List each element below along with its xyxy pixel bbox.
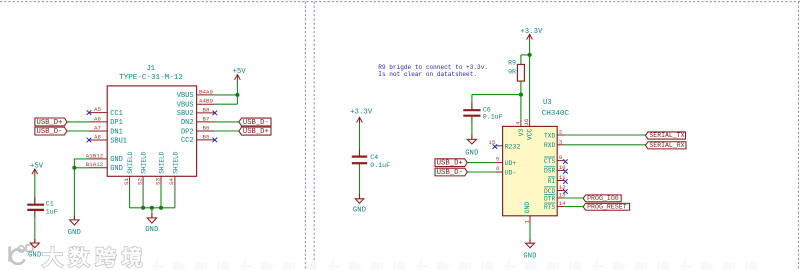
svg-text:USB_D+: USB_D+ xyxy=(37,119,63,127)
svg-text:4: 4 xyxy=(514,121,521,125)
svg-text:A8: A8 xyxy=(94,133,101,140)
svg-text:SERIAL_TX: SERIAL_TX xyxy=(649,132,684,139)
svg-text:GND: GND xyxy=(68,229,81,237)
svg-text:0R: 0R xyxy=(508,69,516,76)
svg-text:S4: S4 xyxy=(168,178,175,185)
svg-text:A4B9: A4B9 xyxy=(199,98,213,105)
svg-text:大数跨境: 大数跨境 xyxy=(42,246,148,270)
svg-text:PROG_RESET: PROG_RESET xyxy=(587,203,627,210)
svg-text:SHIELD: SHIELD xyxy=(158,151,165,174)
svg-text:GND: GND xyxy=(524,202,531,214)
svg-text:PROG_IO0: PROG_IO0 xyxy=(587,195,619,202)
svg-text:SHIELD: SHIELD xyxy=(127,151,134,174)
svg-text:+5V: +5V xyxy=(233,68,247,76)
svg-text:+5V: +5V xyxy=(30,163,44,171)
svg-text:0.1uF: 0.1uF xyxy=(370,162,390,169)
svg-text:SHIELD: SHIELD xyxy=(172,151,179,174)
svg-text:A1B12: A1B12 xyxy=(86,152,104,159)
svg-text:RTS: RTS xyxy=(544,204,555,211)
svg-text:大数跨境大数跨境大数跨境大数跨境大数跨境大数跨境大数跨境: 大数跨境大数跨境大数跨境大数跨境大数跨境大数跨境大数跨境 xyxy=(150,261,766,270)
svg-text:2: 2 xyxy=(559,129,563,136)
svg-text:V3: V3 xyxy=(518,128,525,136)
svg-text:B1A12: B1A12 xyxy=(86,161,104,168)
svg-text:9: 9 xyxy=(559,154,563,161)
svg-text:B5: B5 xyxy=(203,133,210,140)
svg-text:GND: GND xyxy=(353,207,366,215)
svg-text:USB_D+: USB_D+ xyxy=(243,128,269,136)
svg-text:GND: GND xyxy=(110,165,123,173)
svg-text:11: 11 xyxy=(559,174,566,181)
svg-text:CTS: CTS xyxy=(544,158,555,165)
svg-text:USB_D-: USB_D- xyxy=(243,119,269,127)
svg-text:DP2: DP2 xyxy=(181,128,194,136)
svg-text:TXD: TXD xyxy=(544,132,555,139)
svg-text:SBU2: SBU2 xyxy=(177,110,194,118)
svg-text:SHIELD: SHIELD xyxy=(141,151,148,174)
svg-text:1uF: 1uF xyxy=(46,208,58,215)
svg-text:S1: S1 xyxy=(123,178,130,185)
svg-text:DSR: DSR xyxy=(544,168,555,175)
svg-text:GND: GND xyxy=(145,226,158,234)
svg-text:DP1: DP1 xyxy=(110,119,123,127)
svg-text:B4A9: B4A9 xyxy=(199,88,213,95)
svg-text:GND: GND xyxy=(465,150,478,158)
svg-text:16: 16 xyxy=(523,118,530,125)
svg-text:3: 3 xyxy=(559,138,563,145)
svg-text:GND: GND xyxy=(110,156,123,164)
svg-text:12: 12 xyxy=(559,184,566,191)
svg-text:DCD: DCD xyxy=(544,188,555,195)
svg-text:DN1: DN1 xyxy=(110,128,123,136)
svg-text:CC2: CC2 xyxy=(181,137,194,145)
svg-text:SERIAL_RX: SERIAL_RX xyxy=(649,142,684,149)
svg-text:TYPE-C-31-M-12: TYPE-C-31-M-12 xyxy=(119,74,183,82)
svg-text:C4: C4 xyxy=(370,154,378,161)
svg-text:CC1: CC1 xyxy=(110,110,123,118)
svg-text:R9: R9 xyxy=(508,60,516,67)
svg-text:DTR: DTR xyxy=(544,195,555,202)
svg-text:B8: B8 xyxy=(203,106,210,113)
svg-text:UD-: UD- xyxy=(505,170,517,177)
svg-text:15: 15 xyxy=(489,139,496,146)
svg-text:GND: GND xyxy=(523,252,536,260)
svg-text:C6: C6 xyxy=(483,106,491,113)
svg-text:B6: B6 xyxy=(203,124,210,131)
svg-text:1: 1 xyxy=(523,220,530,224)
svg-text:10: 10 xyxy=(559,164,566,171)
svg-text:VCC: VCC xyxy=(527,128,534,140)
svg-text:VBUS: VBUS xyxy=(177,102,194,110)
svg-text:0.1uF: 0.1uF xyxy=(483,113,503,120)
svg-text:CH340C: CH340C xyxy=(542,110,570,118)
svg-text:RXD: RXD xyxy=(544,142,555,149)
svg-text:J1: J1 xyxy=(147,65,155,73)
svg-text:UD+: UD+ xyxy=(505,160,517,167)
svg-text:A7: A7 xyxy=(94,124,101,131)
svg-text:A6: A6 xyxy=(94,115,101,122)
svg-text:S3: S3 xyxy=(154,178,161,185)
svg-text:USB_D+: USB_D+ xyxy=(437,160,463,168)
svg-text:B7: B7 xyxy=(203,115,210,122)
svg-text:USB_D-: USB_D- xyxy=(37,128,63,136)
svg-text:GND: GND xyxy=(28,251,41,259)
svg-text:VBUS: VBUS xyxy=(177,92,194,100)
svg-text:+3.3V: +3.3V xyxy=(350,108,373,116)
svg-text:U3: U3 xyxy=(543,99,552,107)
svg-text:C1: C1 xyxy=(46,201,54,208)
svg-text:USB_D-: USB_D- xyxy=(437,169,463,177)
svg-text:5: 5 xyxy=(496,156,500,163)
svg-text:RI: RI xyxy=(548,178,556,185)
svg-text:SBU1: SBU1 xyxy=(110,137,127,145)
svg-text:R232: R232 xyxy=(505,144,521,151)
svg-text:DN2: DN2 xyxy=(181,119,194,127)
svg-text:S2: S2 xyxy=(136,178,143,185)
svg-text:6: 6 xyxy=(496,165,500,172)
svg-text:Is not clear on datatsheet.: Is not clear on datatsheet. xyxy=(378,71,477,78)
svg-text:A5: A5 xyxy=(94,106,101,113)
svg-text:+3.3V: +3.3V xyxy=(520,28,543,36)
